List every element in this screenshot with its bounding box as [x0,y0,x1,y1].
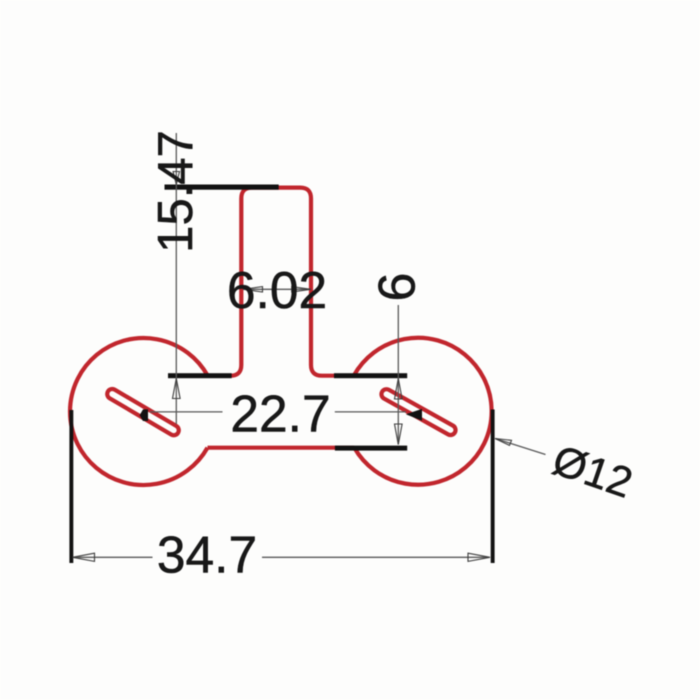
right circle Ø12 (arc, trimmed at bar) [354,338,492,485]
svg-text:22.7: 22.7 [230,385,330,443]
left vertical extension line (34.7) [69,410,73,563]
filled arrowheads of 22.7 at slot centres [140,409,422,421]
right slot [380,387,458,436]
dim line 34.7 right segment [262,556,488,558]
arrow 15.47 bottom (points up, tip at bar-top line) [173,379,181,399]
thin dimension lines [75,133,546,557]
arrow 22.7 right (at right slot centre) [406,409,422,421]
svg-text:6.02: 6.02 [227,261,327,319]
arrow Ø12 leader (points up-left, tip at circle edge) [495,439,512,446]
arrow 6.02 right (points right, tip at stem right wall) [292,287,311,292]
left slot [105,387,180,437]
arrow 6 top (points up, tip at bar-top line) [395,379,403,400]
dim line 22.7 right segment [335,411,406,413]
bar bottom edge [208,446,355,450]
dim line 15.47 (vertical) [175,133,177,424]
arrow 22.7 left (at left slot centre) [140,409,148,421]
dim line 6.02 (horizontal) [243,288,311,290]
leader line Ø12 [496,439,546,455]
black extension lines (thick) [69,185,494,564]
svg-text:34.7: 34.7 [157,526,257,584]
stem with top corner radii and bottom fillets [206,188,354,376]
arrow 6 bottom (points down, tip at bar-bottom line) [395,424,403,445]
right vertical extension line (34.7 / Ø12) [491,410,495,564]
arrow 34.7 right (points right) [468,553,490,561]
stem-top extension line (15.47 upper ref) [165,185,279,190]
bar-top-right extension line [334,373,407,378]
dim line 6 (vertical, bar height) [397,305,399,445]
dim line 34.7 left segment [75,556,153,558]
open arrowheads (outline) [73,172,512,562]
arrow 6.02 left (points left, tip at stem left wall) [243,287,262,292]
bar-top-left extension line [168,373,232,378]
arrow 34.7 left (points left) [73,553,95,561]
bar-bottom-right extension line [335,446,407,451]
left circle Ø12 (arc, trimmed at bar) [70,338,208,485]
dim line 22.7 left segment [150,411,223,413]
svg-text:15.47: 15.47 [149,130,203,253]
arrow 15.47 top (points down, tip at stem-top line) [173,172,179,185]
svg-text:6: 6 [369,273,427,302]
part outline (red profile) [70,188,492,485]
